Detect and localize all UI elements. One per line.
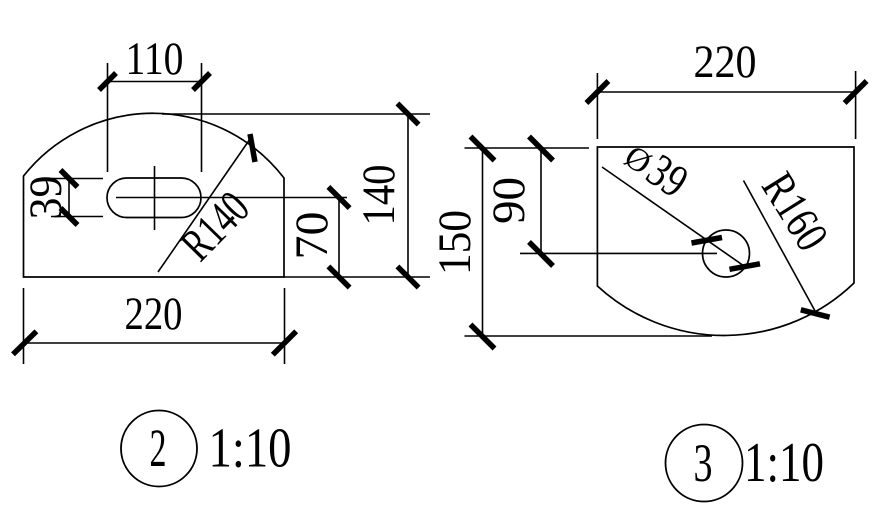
dim 140 / 70 shared bottom extension line (284, 276, 430, 278)
dim 220 dimension line (24, 342, 285, 344)
dim 110 tick right (193, 73, 210, 90)
balloon circle 3 (666, 425, 743, 502)
svg-text:150: 150 (429, 210, 481, 275)
radius leader R160 text (751, 164, 838, 260)
dim 39 text (20, 176, 72, 220)
dim 150 dimension line (482, 148, 484, 336)
dim 39 tick top (61, 170, 78, 187)
dim 140 dimension line (407, 114, 409, 277)
top-left shared extension line (465, 147, 590, 149)
dim 90 tick top (529, 137, 553, 161)
dim 70 tick top (328, 187, 349, 208)
radius leader R140 text (171, 182, 260, 271)
part outline view 2 (24, 113, 285, 277)
dim 110 extension line right (201, 63, 203, 172)
dim 220 (right) dimension line (597, 91, 855, 93)
dim 70 tick bottom (328, 266, 349, 287)
dim 220 (right) tick right (845, 81, 867, 103)
dim 220 (right) tick left (586, 81, 608, 103)
svg-text:3: 3 (694, 433, 713, 493)
dim 39 extension line top (51, 178, 103, 180)
dim 110 dimension line (108, 81, 202, 83)
svg-text:1:10: 1:10 (209, 418, 292, 480)
dim 220 tick right (273, 331, 296, 354)
dim 39 dimension line (68, 179, 70, 217)
svg-text:220: 220 (694, 36, 757, 88)
radius leader R160 line (744, 181, 818, 315)
dim 140 text (353, 165, 405, 226)
dim 110 tick left (99, 73, 116, 90)
slot (obround hole) (107, 178, 201, 218)
svg-text:1:10: 1:10 (744, 432, 824, 494)
diameter leader d39 line (602, 167, 745, 267)
svg-text:R160: R160 (751, 164, 838, 260)
dim 150 tick bottom (471, 325, 495, 349)
part outline view 3 (597, 147, 854, 335)
dim 70 text (286, 212, 338, 260)
svg-text:70: 70 (286, 212, 338, 260)
dim 140 tick top (397, 103, 418, 124)
hole circle d39 (703, 230, 750, 277)
dim 39 extension line bottom (51, 216, 103, 218)
dim 150 tick top (471, 137, 495, 161)
svg-text:90: 90 (483, 177, 535, 224)
dim 90 dimension line (540, 148, 542, 253)
radius leader R140 tick (250, 134, 255, 162)
dim 220 tick left (13, 331, 36, 354)
balloon circle 2 (121, 411, 197, 487)
diameter leader d39 text (615, 129, 697, 208)
svg-text:R140: R140 (171, 182, 260, 271)
svg-text:39: 39 (20, 176, 72, 220)
svg-text:110: 110 (126, 33, 184, 85)
dim 110 extension line left (107, 63, 109, 172)
dim 39 tick bottom (61, 208, 78, 225)
slot horizontal centerline / extension for dim 70 (116, 197, 347, 199)
dim 90 tick bottom (529, 242, 553, 266)
dim 150 text (429, 210, 481, 275)
svg-text:220: 220 (125, 288, 183, 340)
dim 140 extension line top (162, 113, 430, 115)
svg-text:2: 2 (150, 418, 167, 478)
dim 70 dimension line (338, 198, 340, 278)
dim 220 extension line right (284, 288, 286, 364)
diameter leader d39 tick lower (730, 264, 761, 270)
diameter leader d39 tick upper (692, 238, 723, 244)
slot vertical centerline (154, 166, 156, 230)
dim 140 tick bottom (397, 266, 418, 287)
dim 220 (right) extension line left (596, 73, 598, 139)
dim 90 bottom extension line to hole center (520, 252, 717, 254)
svg-text:140: 140 (353, 165, 405, 226)
dim 220 (right) extension line right (855, 71, 857, 139)
radius leader R160 tick (801, 310, 830, 317)
dim 150 bottom extension line (465, 335, 713, 337)
radius leader R140 line (158, 139, 250, 272)
dim 220 extension line left (23, 288, 25, 364)
dim 90 text (483, 177, 535, 224)
